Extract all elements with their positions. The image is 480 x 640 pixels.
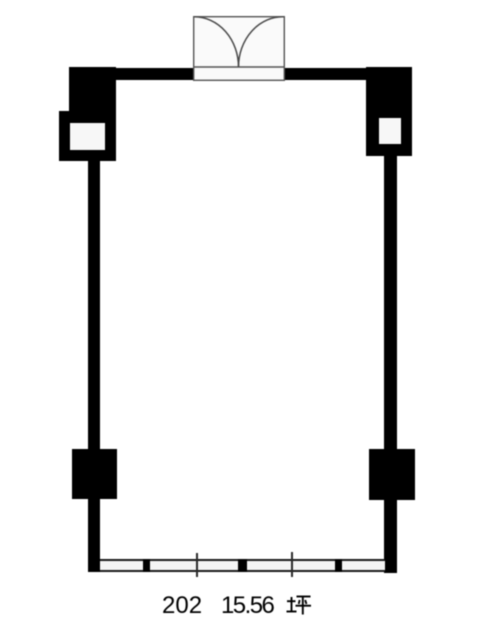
window band bottom (100, 559, 385, 572)
label room number 202 (162, 594, 202, 618)
wall left corner block upper part (69, 67, 116, 111)
window tick 2 (291, 552, 293, 577)
pillar left (72, 449, 117, 499)
label tsubo kanji (drawn) (286, 593, 312, 617)
window mullion 2 (238, 559, 247, 572)
wire top wall left segment (116, 68, 193, 80)
pillar right (369, 449, 415, 500)
window opening left (white) (70, 123, 105, 150)
window tick 1 (196, 553, 198, 577)
wire right wall (384, 156, 397, 573)
wall right corner block (366, 67, 412, 156)
window mullion 3 (335, 559, 342, 572)
window opening right (white) (379, 118, 401, 144)
window mullion 1 (143, 559, 150, 572)
wire left wall (88, 161, 100, 572)
wire top wall right segment (283, 68, 367, 80)
label area 15.56 (221, 594, 273, 618)
double door at top entrance (188, 11, 290, 85)
wall left corner window box (59, 111, 116, 161)
